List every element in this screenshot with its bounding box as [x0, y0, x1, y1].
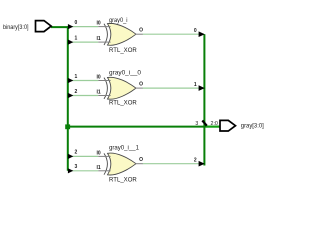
svg-text:1: 1 — [75, 35, 78, 41]
svg-text:3: 3 — [75, 164, 78, 170]
svg-text:RTL_XOR: RTL_XOR — [109, 178, 137, 184]
svg-text:I1: I1 — [97, 90, 101, 96]
svg-text:0: 0 — [194, 28, 197, 34]
svg-text:I1: I1 — [97, 36, 101, 42]
svg-text:1: 1 — [194, 82, 197, 88]
svg-text:3: 3 — [195, 121, 198, 127]
svg-text:gray0_i: gray0_i — [109, 18, 128, 24]
svg-text:O: O — [139, 28, 143, 34]
svg-text:0: 0 — [75, 20, 78, 26]
svg-text:I1: I1 — [97, 165, 101, 171]
svg-text:2:0: 2:0 — [211, 121, 219, 127]
svg-text:gray[3:0]: gray[3:0] — [241, 122, 264, 129]
svg-text:1: 1 — [75, 74, 78, 80]
svg-text:RTL_XOR: RTL_XOR — [109, 48, 137, 54]
svg-text:I0: I0 — [97, 21, 101, 27]
svg-text:RTL_XOR: RTL_XOR — [109, 101, 137, 107]
svg-text:2: 2 — [194, 158, 197, 164]
svg-text:binary[3:0]: binary[3:0] — [3, 24, 29, 31]
svg-text:2: 2 — [75, 89, 78, 95]
svg-text:gray0_i__1: gray0_i__1 — [109, 145, 140, 151]
svg-text:gray0_i__0: gray0_i__0 — [109, 71, 142, 77]
svg-text:I0: I0 — [97, 75, 101, 81]
svg-text:I0: I0 — [97, 151, 101, 157]
svg-text:O: O — [139, 82, 143, 88]
svg-text:2: 2 — [75, 150, 78, 156]
svg-text:O: O — [139, 157, 143, 163]
